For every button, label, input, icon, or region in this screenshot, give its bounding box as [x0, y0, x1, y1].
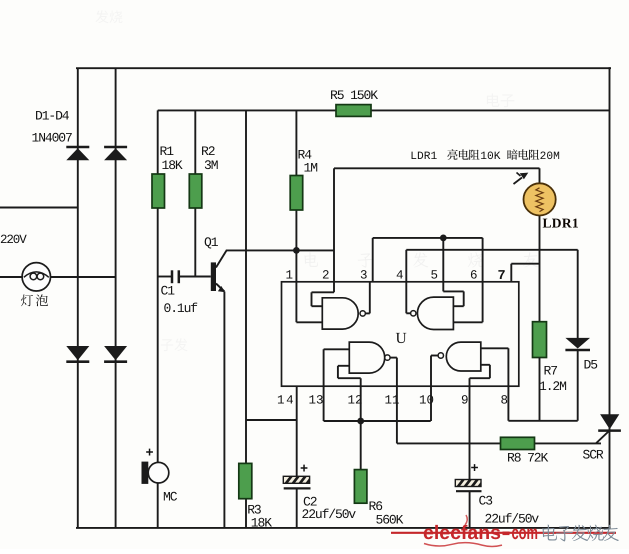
- svg-text:R1: R1: [160, 144, 175, 159]
- NAND gate U1A: [322, 298, 358, 329]
- wire gateC in2 stub: [338, 365, 349, 367]
- wire R1/MC branch: [157, 110, 159, 528]
- svg-text:D1-D4: D1-D4: [35, 109, 70, 124]
- diode D1: [66, 146, 89, 149]
- svg-text:电子: 电子: [485, 93, 515, 110]
- svg-text:10K: 10K: [480, 151, 501, 163]
- resistor R4: [290, 176, 303, 211]
- wire gateC in1 from pin13: [324, 348, 350, 350]
- wire Q1 emitter drop: [223, 292, 225, 528]
- svg-text:R5 150K: R5 150K: [330, 88, 378, 103]
- diode D2: [104, 146, 127, 149]
- svg-text:1M: 1M: [304, 161, 318, 176]
- svg-text:1: 1: [286, 269, 294, 283]
- microphone MC: [142, 462, 149, 484]
- svg-text:13: 13: [309, 394, 324, 408]
- wire VDD feed pin14/R3: [245, 110, 247, 528]
- diode D3: [66, 346, 89, 360]
- wire gateB in1 stub: [453, 305, 463, 307]
- svg-text:3: 3: [360, 269, 368, 283]
- transistor Q1: [211, 262, 216, 291]
- node Q1-collector/R4/pin1: [293, 247, 300, 254]
- SCR thyristor: [600, 414, 619, 429]
- svg-text:3M: 3M: [204, 158, 218, 173]
- svg-text:2: 2: [322, 269, 330, 283]
- wire gateA in1 stub: [312, 305, 323, 307]
- svg-text:发烧: 发烧: [95, 10, 123, 26]
- diode D4: [104, 346, 127, 360]
- wire pins 3-5-6 link: [373, 237, 483, 239]
- svg-text:1N4007: 1N4007: [32, 131, 73, 146]
- NAND gate U1D: [446, 342, 481, 371]
- svg-text:D5: D5: [584, 358, 598, 373]
- LDR1 photoresistor: [524, 183, 556, 215]
- svg-text:+: +: [146, 447, 154, 462]
- wire gateC out pin11 drop: [396, 358, 398, 444]
- LDR light arrow: [514, 178, 523, 185]
- label 灯泡: [21, 294, 48, 306]
- svg-text:20M: 20M: [540, 151, 560, 163]
- wire top supply bus: [76, 67, 611, 69]
- svg-text:18K: 18K: [251, 516, 272, 531]
- resistor R3 18K: [239, 463, 252, 498]
- svg-text:18K: 18K: [162, 158, 183, 173]
- resistor R6 560K: [354, 470, 367, 504]
- IC U (CD4011 quad NAND) outline: [282, 282, 519, 386]
- wire pin11 to R8 to SCR gate: [397, 442, 601, 444]
- svg-text:Q1: Q1: [204, 235, 219, 250]
- wire R2 branch: [194, 110, 196, 276]
- wire pin8-R7-D5 link: [508, 420, 577, 422]
- svg-text:SCR: SCR: [583, 448, 604, 463]
- svg-text:C3: C3: [479, 494, 493, 509]
- NAND gate U1C: [349, 342, 384, 373]
- svg-text:R7: R7: [544, 363, 558, 378]
- wire R4 / pin1 branch: [295, 110, 297, 322]
- wire gateD out pin10 drop: [430, 356, 432, 422]
- NAND gate U1B: [417, 297, 453, 329]
- wire pin3 riser: [372, 238, 374, 282]
- wire pin9 drop to C3: [469, 378, 471, 479]
- svg-text:4: 4: [396, 269, 404, 283]
- wire Q1 collector node link: [226, 249, 334, 251]
- wire right rail with SCR: [609, 67, 611, 528]
- wire pin7 stub: [510, 264, 512, 282]
- resistor R8 72K: [501, 437, 535, 449]
- svg-text:22uf/50v: 22uf/50v: [302, 507, 357, 522]
- wire VDD to pin14: [246, 419, 297, 421]
- wire gateA out to pin3: [369, 282, 371, 313]
- watermark elecfans.com 电子发烧友: [391, 515, 619, 546]
- wire bridge right leg: [115, 68, 117, 528]
- svg-text:7: 7: [498, 269, 506, 284]
- svg-text:U: U: [396, 330, 407, 347]
- wire bottom return bus: [76, 527, 611, 529]
- capacitor C3 22uf/50v: [455, 480, 481, 492]
- wire D5 anode drop: [577, 250, 579, 338]
- wire pin6 riser: [482, 238, 484, 322]
- svg-text:LDR1: LDR1: [410, 151, 437, 163]
- wire gateD in2 stub: [481, 364, 490, 366]
- svg-text:C1: C1: [161, 283, 176, 298]
- wire lamp line: [0, 276, 116, 278]
- wire gateB in2 from pin6: [453, 321, 482, 323]
- wire pin5 riser: [442, 238, 444, 292]
- wire VDD bus: [158, 109, 610, 111]
- wire pin12 drop to R6: [360, 378, 362, 469]
- svg-text:14: 14: [277, 394, 295, 408]
- lamp bulb 灯泡: [22, 263, 50, 291]
- svg-text:8: 8: [501, 394, 509, 408]
- svg-text:220V: 220V: [0, 233, 27, 247]
- capacitor C2 22uf/50v: [283, 476, 310, 488]
- svg-text:R2: R2: [201, 144, 215, 159]
- wire 220V feed top: [0, 207, 78, 209]
- svg-text:1.2M: 1.2M: [539, 379, 566, 394]
- resistor R2: [189, 174, 202, 208]
- svg-text:5: 5: [431, 269, 439, 283]
- wire gateD in1 to pin8: [481, 347, 509, 349]
- wire pin7 to LDR column: [511, 263, 539, 265]
- resistor R5 150K: [336, 105, 371, 117]
- diode D5: [565, 338, 590, 349]
- svg-text:子发: 子发: [160, 338, 188, 354]
- resistor R1: [152, 174, 165, 208]
- wire pin4 riser: [405, 250, 407, 313]
- node pin12 junction: [357, 418, 364, 425]
- capacitor C1 0.1uf: [158, 276, 172, 278]
- wire pins 13-12-10 link: [324, 420, 431, 422]
- wire pin2 riser: [333, 168, 335, 292]
- node pin5 junction: [440, 235, 447, 242]
- wire gateA in2 from pin1: [296, 321, 322, 323]
- svg-text:6: 6: [470, 269, 478, 283]
- wire pin14 drop to C2: [296, 386, 298, 476]
- svg-text:560K: 560K: [376, 513, 404, 528]
- wire pin4 to D5 anode: [406, 249, 577, 251]
- svg-text:0.1uf: 0.1uf: [164, 301, 198, 316]
- resistor R7 1.2M: [533, 322, 547, 358]
- svg-text:+: +: [300, 463, 308, 478]
- svg-text:+: +: [471, 462, 479, 477]
- svg-text:R8 72K: R8 72K: [507, 450, 549, 465]
- svg-text:MC: MC: [163, 489, 178, 504]
- wire R7 bottom: [539, 358, 541, 421]
- wire bridge left leg: [77, 68, 79, 528]
- wire LDR / R7 column: [539, 168, 541, 322]
- svg-text:LDR1: LDR1: [543, 215, 579, 230]
- svg-text:9: 9: [461, 394, 469, 408]
- wire LDR top link: [334, 167, 540, 169]
